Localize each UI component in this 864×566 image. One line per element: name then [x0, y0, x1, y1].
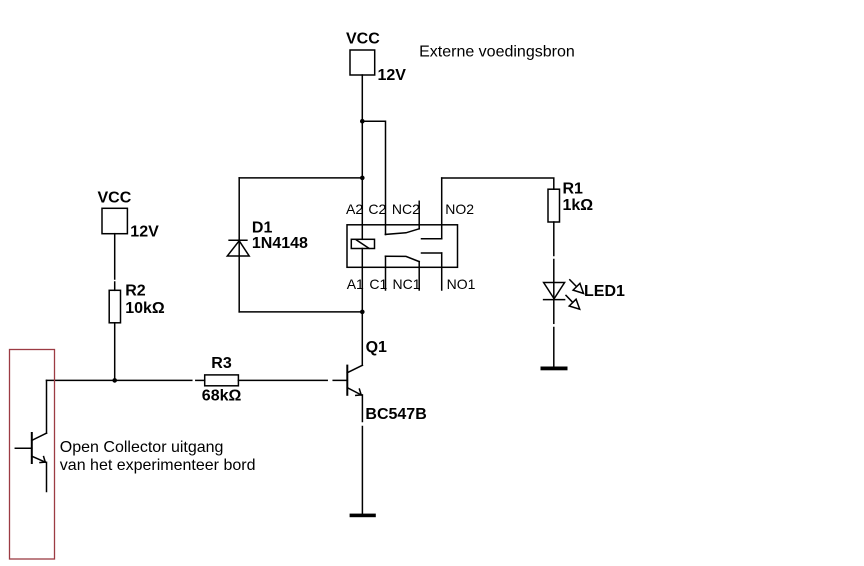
resistor R3	[205, 375, 239, 386]
wire R3 to Q1 base	[238, 379, 327, 381]
transistor Q1 BC547B	[346, 366, 348, 395]
svg-text:1N4148: 1N4148	[252, 235, 308, 252]
relay K1 body	[347, 225, 458, 267]
wire LED1 to ground	[553, 328, 555, 367]
wire node to node2 (A2 feed)	[361, 121, 363, 178]
wire R1 to LED1	[553, 222, 555, 256]
svg-text:R2: R2	[125, 283, 146, 300]
svg-text:NC2: NC2	[392, 201, 420, 217]
ground (LED branch)	[541, 367, 568, 371]
wire base net horizontal	[47, 379, 192, 381]
LED arrow 1	[570, 280, 577, 287]
svg-text:68kΩ: 68kΩ	[202, 387, 242, 404]
wire Q1 emitter to ground	[361, 395, 363, 422]
wire node2 to D1 cathode	[239, 177, 362, 179]
wire A1 coil to node3 to Q1 collector	[361, 249, 363, 366]
pin NO1	[422, 252, 442, 254]
svg-text:1kΩ: 1kΩ	[563, 197, 594, 214]
wire VCC top to node	[361, 75, 363, 121]
node junction A1/collector	[360, 310, 365, 315]
svg-text:VCC: VCC	[346, 30, 380, 47]
pin NO2	[441, 178, 443, 239]
power symbol VCC (top, external supply)	[350, 50, 375, 75]
open collector box (red)	[10, 350, 55, 560]
svg-text:12V: 12V	[378, 67, 407, 84]
svg-text:LED1: LED1	[584, 283, 625, 300]
svg-text:A2: A2	[346, 201, 363, 217]
svg-text:R1: R1	[563, 180, 584, 197]
wire R2 to base node	[114, 323, 116, 381]
wire node to C2 pin	[362, 121, 385, 234]
relay contact arm C1-NC1	[386, 256, 420, 261]
node junction base net	[112, 378, 117, 383]
svg-text:C1: C1	[369, 276, 387, 292]
svg-text:Open Collector uitgang: Open Collector uitgang	[60, 439, 224, 456]
resistor R1	[548, 189, 560, 222]
LED arrow 2	[566, 295, 573, 302]
wire A2 down to coil	[361, 178, 363, 239]
resistor R2	[109, 290, 120, 323]
ground (Q1 emitter)	[350, 514, 376, 518]
LED LED1	[544, 283, 565, 299]
power symbol VCC (left)	[102, 208, 127, 233]
wire D1 anode to node3	[239, 311, 362, 313]
svg-text:D1: D1	[252, 219, 273, 236]
relay contact arm C2-NC2	[386, 229, 420, 235]
transistor (open collector output)	[15, 447, 32, 449]
svg-text:van het experimenteer bord: van het experimenteer bord	[60, 457, 256, 474]
diode D1 1N4148	[238, 178, 240, 312]
svg-text:Externe voedingsbron: Externe voedingsbron	[419, 44, 575, 61]
pin NC1	[418, 262, 420, 290]
svg-text:VCC: VCC	[98, 189, 132, 206]
svg-text:C2: C2	[368, 201, 386, 217]
wire NO2 to R1	[442, 178, 554, 189]
svg-text:NO2: NO2	[445, 201, 474, 217]
svg-text:R3: R3	[211, 355, 232, 372]
svg-text:12V: 12V	[130, 223, 159, 240]
node junction A2/D1	[360, 176, 365, 181]
wire VCC to R2	[114, 234, 116, 279]
svg-text:NC1: NC1	[393, 276, 421, 292]
svg-text:BC547B: BC547B	[365, 406, 426, 423]
pin C1	[385, 233, 387, 235]
pin NC2	[418, 201, 420, 229]
node junction top	[360, 119, 365, 124]
relay coil	[351, 239, 374, 248]
svg-text:A1: A1	[347, 276, 364, 292]
svg-text:NO1: NO1	[447, 276, 476, 292]
svg-text:Q1: Q1	[366, 339, 387, 356]
svg-text:10kΩ: 10kΩ	[125, 300, 165, 317]
